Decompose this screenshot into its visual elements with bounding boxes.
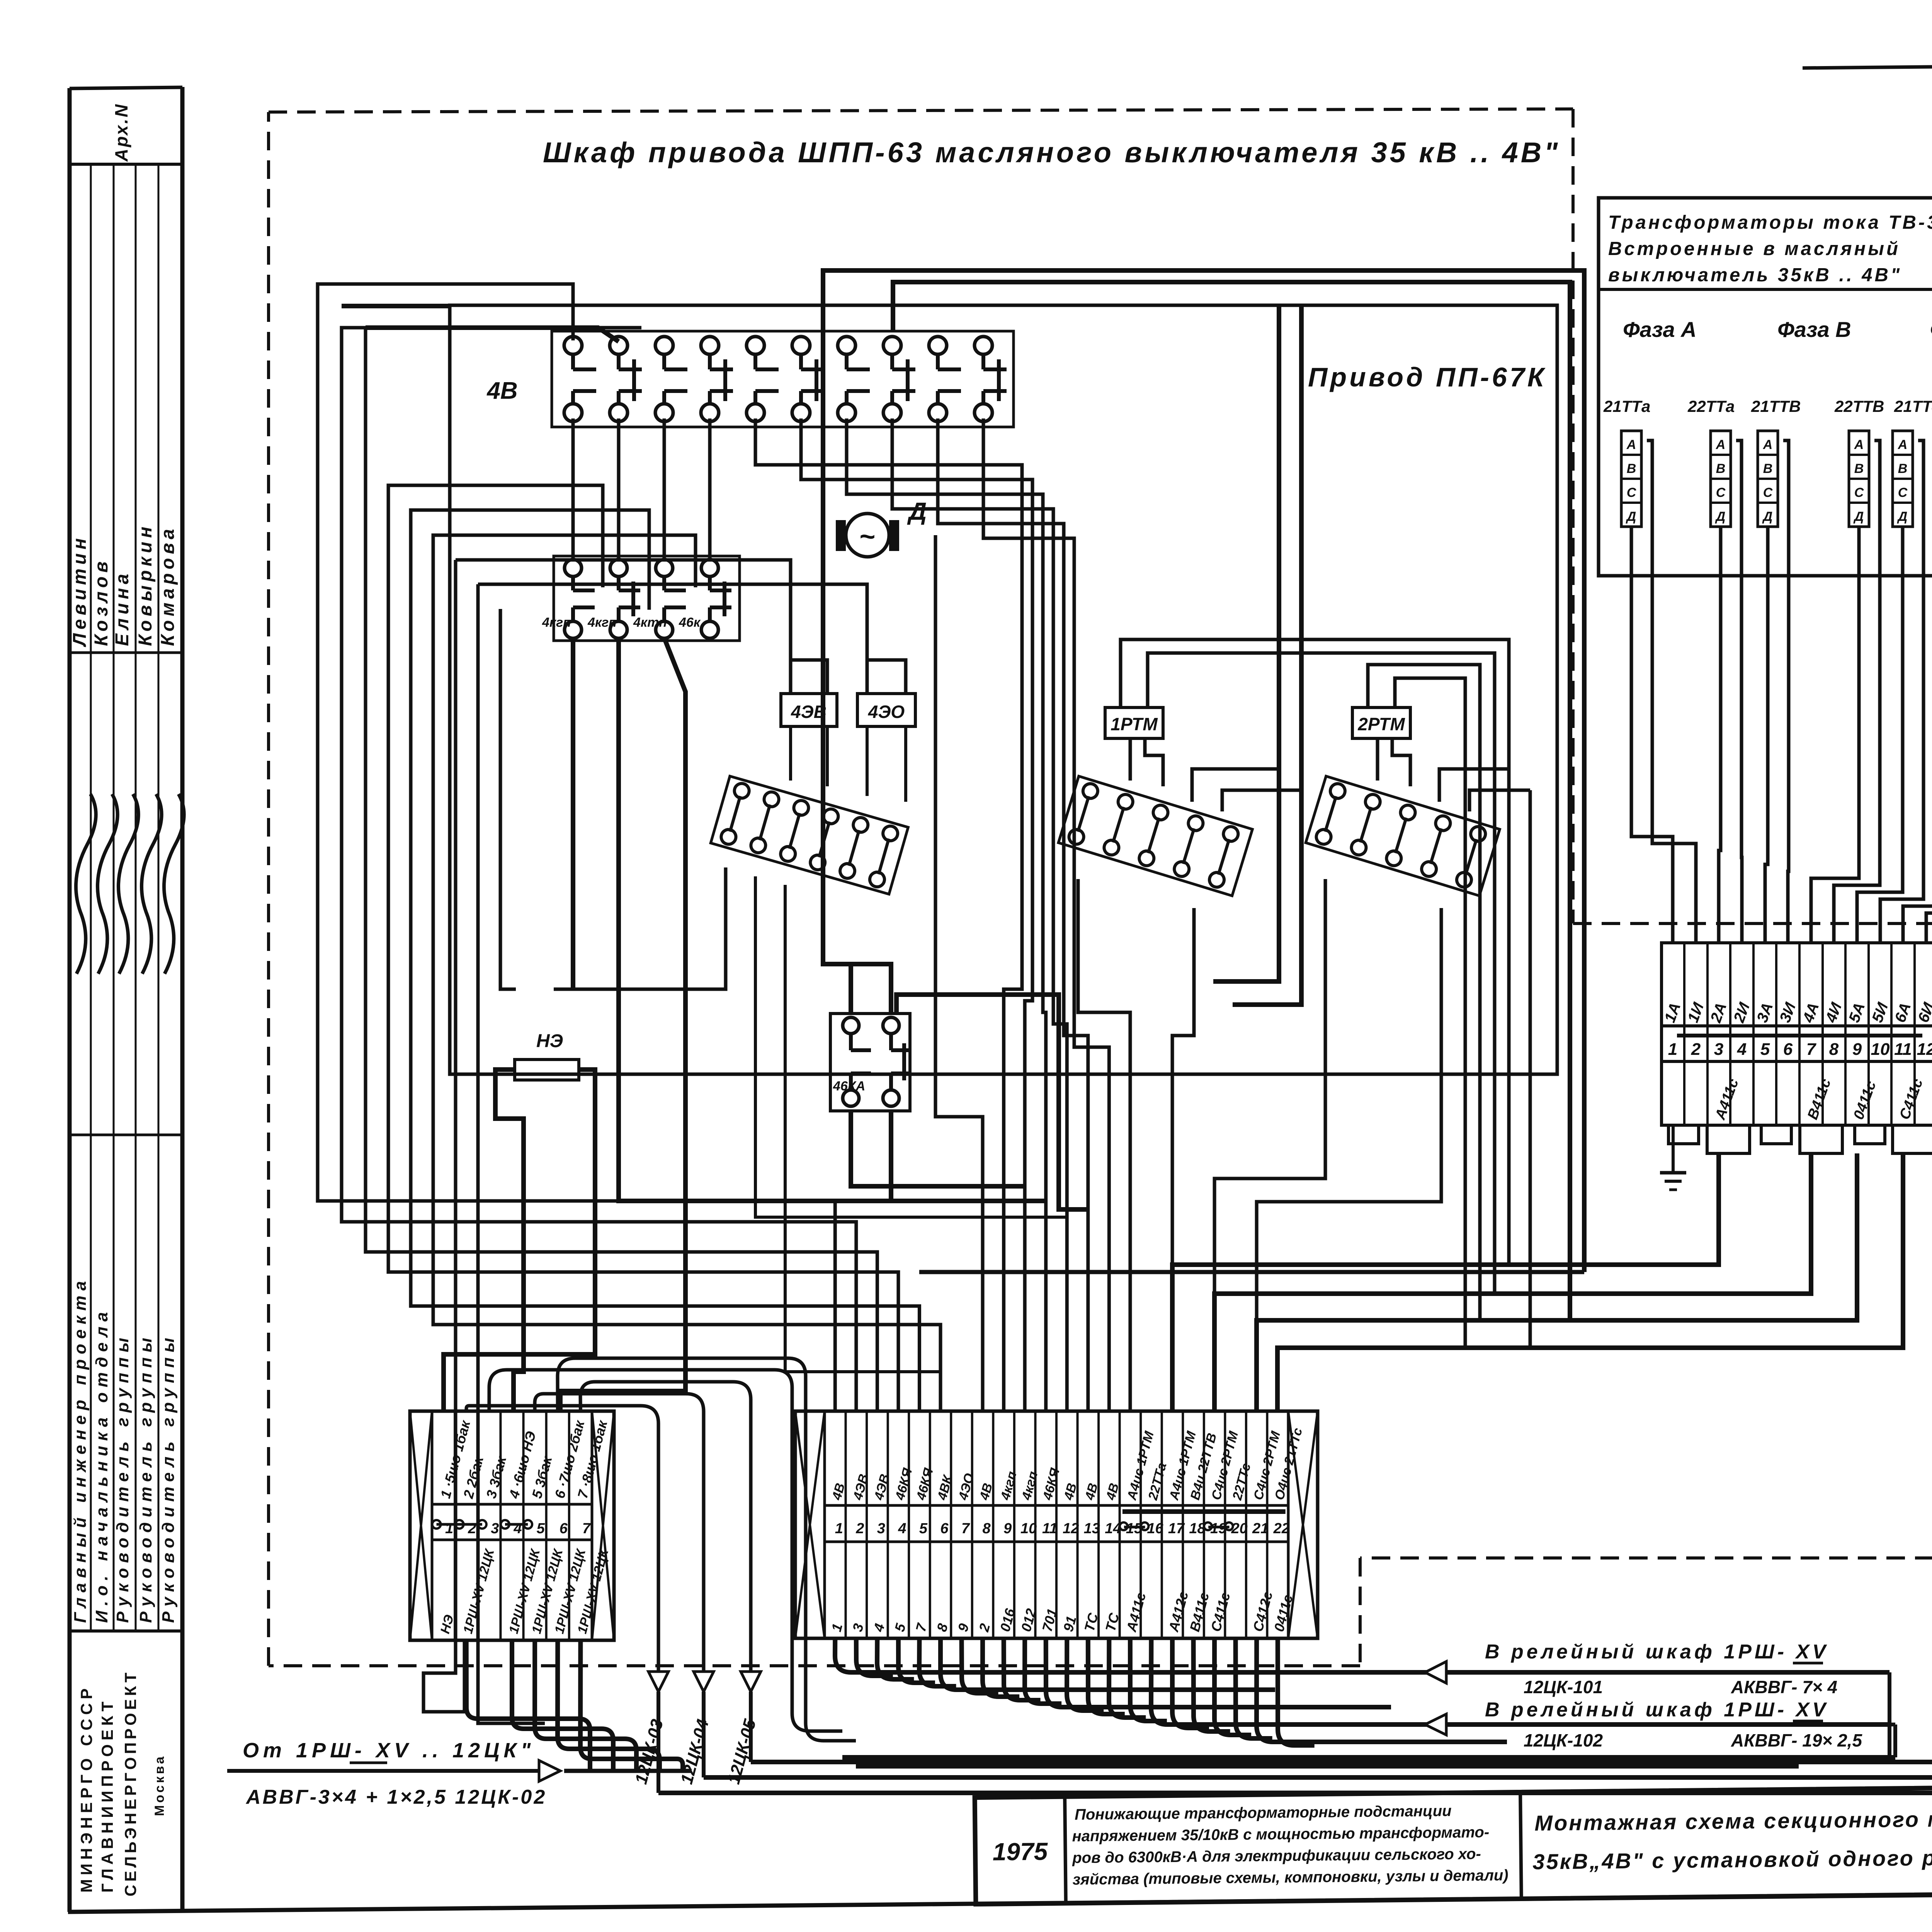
wires from tilted block down [554,867,726,989]
left strip bottom wires to cable [466,1640,590,1771]
svg-text:Руководитель группы: Руководитель группы [136,1333,155,1623]
12-terminal strip jumper bar [1677,1034,1922,1037]
svg-text:~: ~ [860,521,876,551]
wire nested frame B [1233,305,1301,1005]
wires from 12-terminal strip to main strip links [1172,1153,1719,1411]
svg-text:В: В [1627,461,1636,476]
svg-text:10: 10 [1020,1520,1037,1537]
svg-text:4ктп: 4ктп [633,615,667,630]
svg-text:1РТМ: 1РТМ [1111,714,1158,734]
cable 12CK-05 run [751,436,1932,1762]
svg-text:Д: Д [1626,509,1636,524]
svg-text:Д: Д [1762,509,1773,524]
trunk lines under main strip [842,1755,1895,1760]
svg-text:3: 3 [877,1520,885,1537]
svg-text:В: В [1854,461,1864,476]
svg-text:1975: 1975 [992,1837,1048,1866]
svg-text:МИНЭНЕРГО СССР: МИНЭНЕРГО СССР [77,1685,95,1893]
svg-text:От 1РШ- XV .. 12ЦК": От 1РШ- XV .. 12ЦК" [243,1739,535,1762]
relay 1РТМ tilted contact block [1058,776,1252,896]
left strip arcs to cable risers [466,1406,658,1670]
wire bus left bundle [318,284,835,1411]
svg-text:Руководитель группы: Руководитель группы [159,1333,178,1623]
wire bus line 7 down to lower hook [423,560,464,1712]
ground symbol [1672,1125,1675,1173]
cable riser stems [656,1692,660,1793]
wire stub row 1320 [411,510,649,610]
wires 1RTM up to right [1121,639,1509,1265]
contact 4ктп [656,560,673,577]
svg-text:Елина: Елина [112,570,133,646]
incoming cable line Ot 1RSh-XV 12CK [227,1769,539,1773]
4V contact 4 [701,337,719,354]
4V contact 2 [610,337,628,354]
sheet frame top border (right part) [1803,60,1932,68]
main strip bottom wire cascade [835,1638,1889,1672]
drive unit box Privod PP-67K [450,305,1557,1074]
svg-text:17: 17 [1168,1520,1185,1537]
left strip row dividers [432,1503,592,1506]
svg-text:Фаза В: Фаза В [1777,317,1851,342]
svg-text:Д: Д [1897,509,1908,524]
svg-text:12ЦК-102: 12ЦК-102 [1524,1730,1603,1750]
svg-text:7: 7 [1806,1040,1817,1059]
svg-text:15: 15 [1126,1520,1143,1537]
svg-text:Фаза С: Фаза С [1930,317,1932,342]
tilted aux switch block KSA [711,776,908,894]
svg-text:Шкаф привода ШПП-63 масляног: Шкаф привода ШПП-63 масляного выключател… [543,136,1560,168]
svg-text:АВВГ-3×4 + 1×2,5 12ЦК-02: АВВГ-3×4 + 1×2,5 12ЦК-02 [245,1786,547,1808]
svg-text:НЭ: НЭ [536,1031,563,1051]
4V contact 8 [883,337,901,354]
svg-text:6: 6 [560,1520,568,1537]
svg-text:1: 1 [835,1520,843,1537]
stamp divider names/signatures [70,651,182,654]
relay box 4EV [781,694,837,726]
wire inner box top-left stub [342,304,450,308]
wires 4V cols5-10 to main strip cols 9-14 [755,418,1022,1411]
dashed enclosure Shkaf privoda ShPP-63 [269,109,1573,112]
svg-text:22ТТВ: 22ТТВ [1834,397,1884,415]
4V contact 1 [564,337,582,354]
CT box title divider [1599,288,1932,291]
sheet frame bottom border [68,1888,1932,1912]
wire motor left to 46KA loop [823,535,851,1015]
svg-text:12: 12 [1917,1040,1932,1059]
current transformer box TV-35/10 [1599,198,1932,576]
left terminal strip outer box [410,1411,614,1640]
main strip heavy jumper bar [1122,1509,1286,1514]
relay 2РТМ staircase wires right [1439,769,1509,802]
svg-text:В релейный шкаф 1РШ- XV: В релейный шкаф 1РШ- XV [1485,1699,1829,1721]
4V contact 6 [792,337,810,354]
resistor NE right wire [444,1070,595,1411]
svg-text:18: 18 [1189,1520,1206,1537]
svg-text:Привод ПП-67К: Привод ПП-67К [1308,362,1547,392]
svg-text:В: В [1898,461,1908,476]
4V contact 7 [838,337,855,354]
wire 46KA gamma right [896,995,1088,1209]
relay 1РТМ wires to contacts [1129,738,1132,781]
svg-text:А: А [1854,437,1864,452]
svg-text:2: 2 [468,1520,476,1537]
svg-text:И.о. начальника отдела: И.о. начальника отдела [92,1307,111,1623]
svg-text:2: 2 [855,1520,864,1537]
motor D terminals [836,520,846,551]
svg-text:5: 5 [1760,1040,1770,1059]
main strip end crosses [795,1411,825,1638]
main strip row dividers [825,1504,1288,1507]
resistor NE [515,1060,579,1080]
svg-text:21ТТс: 21ТТс [1894,397,1932,415]
wire 46KA loop top [851,964,891,1015]
svg-text:21: 21 [1252,1520,1269,1537]
svg-text:1: 1 [1668,1040,1677,1059]
wire 4kgp col1 drop [571,638,575,989]
svg-text:3: 3 [491,1520,499,1537]
contact 4кгп [610,560,627,577]
wires 2RTM down to main strip [1214,879,1325,1411]
relay 2РТМ wires to contacts [1376,738,1379,781]
svg-text:В релейный шкаф 1РШ- XV: В релейный шкаф 1РШ- XV [1485,1641,1829,1663]
wires 4EV to tilted block [789,726,792,781]
stamp column top edge [70,87,182,88]
svg-text:9: 9 [1003,1520,1012,1537]
svg-text:9: 9 [1852,1040,1862,1059]
wires 1RTM down to main strip [1078,879,1130,1411]
aux contact block 4V box [552,331,1014,427]
wire motor right [935,535,983,1411]
svg-text:12ЦК-101: 12ЦК-101 [1524,1677,1603,1697]
svg-text:21ТТВ: 21ТТВ [1751,397,1801,415]
relay box 4EO [857,694,915,726]
svg-text:4: 4 [898,1520,906,1537]
sheet frame stamp right border [180,87,185,1912]
svg-text:Д: Д [1853,509,1864,524]
svg-text:5: 5 [919,1520,928,1537]
cable riser arrows 12CK-03/04/05 [648,1672,668,1692]
svg-text:А: А [1763,437,1773,452]
svg-text:Комарова: Комарова [158,525,178,646]
wires 2RTM up to right [1368,665,1480,1320]
stamp divider under Arx.N cell [70,163,182,166]
svg-text:6: 6 [1783,1040,1793,1059]
svg-text:11: 11 [1042,1520,1057,1537]
svg-text:21ТТа: 21ТТа [1603,397,1650,415]
svg-text:13: 13 [1084,1520,1100,1537]
svg-text:7: 7 [582,1520,591,1537]
svg-text:4ЭО: 4ЭО [868,702,905,722]
svg-text:2РТМ: 2РТМ [1357,714,1405,734]
svg-text:6: 6 [940,1520,949,1537]
svg-text:Фаза А: Фаза А [1623,317,1697,342]
svg-text:11: 11 [1894,1040,1912,1059]
contact 46к [701,560,718,577]
svg-text:22: 22 [1273,1520,1290,1537]
cable 12CK-02 line continuation [564,1769,692,1773]
svg-text:АКВВГ- 7× 4: АКВВГ- 7× 4 [1731,1677,1837,1697]
stamp signatures [76,794,96,974]
svg-text:46КА: 46КА [833,1079,865,1094]
wire nested frame C [893,282,1570,1320]
svg-text:4кгп: 4кгп [587,615,617,630]
cable 12CK-04 run [704,436,1932,1777]
12-terminal strip for CT circuits [1662,943,1932,1026]
4V contact 3 [655,337,673,354]
wire loop above 4EV [791,660,827,694]
4V contact 9 [929,337,947,354]
svg-text:4В: 4В [486,378,517,404]
svg-text:Ковыркин: Ковыркин [135,523,156,646]
svg-text:1: 1 [445,1520,453,1537]
svg-text:Встроенные в масляный: Встроенные в масляный [1608,238,1900,259]
svg-text:С: С [1627,485,1636,500]
wire stub row 1256 [388,485,603,587]
motor D [846,514,889,557]
svg-text:С: С [1898,485,1908,500]
main strip column dividers [845,1411,847,1638]
wires 46KA bottom [851,1110,1025,1186]
wire nested frame A [1213,305,1279,981]
title block outer box [975,1780,1932,1904]
svg-text:С: С [1716,485,1726,500]
contact block 4kgp box [554,556,740,641]
svg-text:В: В [1716,461,1726,476]
wire loop above 4EO [867,660,906,694]
svg-text:СЕЛЬЭНЕРГОПРОЕКТ: СЕЛЬЭНЕРГОПРОЕКТ [121,1670,139,1896]
4V contact 5 [747,337,764,354]
4V contact 10 [975,337,992,354]
wire 4kgp col2 drop [619,638,891,1201]
svg-text:А: А [1716,437,1726,452]
svg-text:5: 5 [537,1520,545,1537]
wire 4V col2 top feed diagonal [366,328,619,342]
title block cell dividers [1065,1797,1066,1903]
svg-text:Главный инженер проекта: Главный инженер проекта [71,1276,90,1623]
svg-text:Д: Д [1715,509,1726,524]
wire 4V col1 top feed [318,284,573,340]
svg-text:Руководитель группы: Руководитель группы [113,1333,132,1623]
wire stub row 1385 [433,535,696,587]
svg-text:2: 2 [1691,1040,1701,1059]
relay cabinet cable 102 line [1442,1723,1895,1726]
stamp divider roles/org cell [70,1629,182,1633]
svg-text:А: А [1898,437,1908,452]
svg-text:Д: Д [907,497,927,525]
svg-text:АКВВГ- 19× 2,5: АКВВГ- 19× 2,5 [1731,1730,1862,1750]
svg-text:Трансформаторы тока ТВ-35/10,: Трансформаторы тока ТВ-35/10, [1608,212,1932,233]
CT block wires down to 12-terminal strip [1631,527,1673,943]
relay cable connector verticals [1888,1672,1891,1757]
wires 4EO to tilted block [866,726,869,796]
resistor NE left wire [495,1070,524,1411]
wire top loop y700 [823,270,1584,1272]
relay cabinet cable 101 line [1442,1670,1889,1674]
stamp divider signatures/roles [70,1134,182,1136]
svg-text:14: 14 [1105,1520,1121,1537]
relay label box 2РТМ [1352,707,1410,738]
svg-text:8: 8 [983,1520,991,1537]
svg-text:16: 16 [1147,1520,1163,1537]
relay label box 1РТМ [1105,707,1163,738]
svg-text:Козлов: Козлов [91,558,112,646]
svg-text:С: С [1763,485,1773,500]
CT terminal blocks A B C D [1621,431,1641,527]
contact 4кгп [565,560,582,577]
main terminal strip outer box [795,1411,1318,1638]
relay 2РТМ tilted contact block [1306,776,1500,896]
svg-text:10: 10 [1871,1040,1890,1059]
relay 1РТМ staircase wires right [1192,769,1279,802]
svg-text:ГЛАВНИИПРОЕКТ: ГЛАВНИИПРОЕКТ [98,1698,116,1893]
stamp inner vertical lines [90,164,92,1631]
wire bus line 8 down join bottom band [478,584,545,1723]
svg-text:7: 7 [961,1520,970,1537]
wire bus line 9 NE branch [500,609,516,989]
svg-text:Арх.N: Арх.N [111,103,131,162]
ground tabs under strip [1668,1125,1699,1144]
svg-text:8: 8 [1829,1040,1839,1059]
svg-text:Левитин: Левитин [70,534,90,647]
left strip column dividers [454,1411,456,1640]
wire long bus to right [919,1270,1584,1274]
svg-text:выключатель 35кВ .. 4В": выключатель 35кВ .. 4В" [1608,265,1902,286]
sheet frame left border [68,88,72,1912]
svg-text:4: 4 [513,1520,522,1537]
svg-text:Москва: Москва [152,1754,167,1816]
svg-text:12: 12 [1063,1520,1079,1537]
wires 4EV 4EO upper feeds [456,560,791,660]
svg-text:В: В [1763,461,1773,476]
svg-text:19: 19 [1210,1520,1226,1537]
left strip end crosses [410,1411,432,1640]
contact block 46KA box [830,1014,910,1111]
left strip arcs long right [489,1370,842,1731]
wire diagonal from 4ktp contact [560,638,685,1411]
svg-text:4: 4 [1737,1040,1747,1059]
svg-text:С: С [1854,485,1864,500]
svg-text:А: А [1626,437,1636,452]
cable 12CK-03 run [658,436,1932,1793]
svg-text:22ТТа: 22ТТа [1687,397,1735,415]
wires 4V block to 4kgp block [571,418,575,561]
svg-text:3: 3 [1714,1040,1723,1059]
svg-text:46к: 46к [679,615,701,630]
svg-text:4кгп: 4кгп [542,615,571,630]
